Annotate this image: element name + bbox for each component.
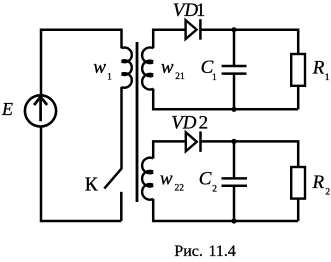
svg-text:1: 1 xyxy=(212,73,217,83)
wire: R2 bottom lead xyxy=(297,199,300,221)
wire: primary bottom wire and E bottom lead xyxy=(41,126,121,221)
transformer secondary winding w22 xyxy=(142,158,153,200)
wire: C1 bottom lead xyxy=(233,74,236,110)
transformer core xyxy=(136,42,139,202)
wire: switch bottom contact lead xyxy=(120,192,123,221)
resistor R1 xyxy=(291,54,305,86)
svg-text:2: 2 xyxy=(325,187,330,197)
transformer primary winding w1 xyxy=(122,48,132,88)
diode VD2 triangle xyxy=(186,132,197,151)
voltage source E arrow xyxy=(34,97,47,122)
node: junction dot VD2/C2 top xyxy=(231,139,236,144)
wire: C2 top lead xyxy=(233,141,236,178)
wire: w21 top lead and top wire to VD1 anode xyxy=(153,30,185,49)
wire: top loop bottom wire and w21 bottom lead xyxy=(153,89,298,110)
wire: bottom loop bottom wire and w22 bottom lead xyxy=(153,199,298,221)
svg-text:C: C xyxy=(199,169,212,190)
svg-text:w: w xyxy=(161,57,174,78)
svg-text:E: E xyxy=(1,99,13,119)
node: junction dot C1 bottom xyxy=(231,107,236,112)
svg-text:К: К xyxy=(85,174,99,195)
svg-text:1: 1 xyxy=(107,73,112,83)
svg-text:21: 21 xyxy=(175,72,185,82)
wire: w22 top lead and bottom loop top wire to VD2 anode xyxy=(153,141,186,158)
svg-text:1: 1 xyxy=(325,73,330,83)
wire: R1 bottom lead xyxy=(297,86,300,110)
svg-text:11.4: 11.4 xyxy=(209,243,236,260)
wire: VD2 cathode to corner down to R2 xyxy=(201,141,299,167)
svg-text:w: w xyxy=(93,57,106,78)
svg-text:w: w xyxy=(160,169,173,190)
svg-text:VD: VD xyxy=(171,113,197,134)
diode VD1 cathode bar xyxy=(199,19,202,40)
svg-text:2: 2 xyxy=(212,185,217,195)
wire: C1 top lead xyxy=(233,30,236,66)
transformer secondary winding w21 xyxy=(142,47,153,89)
node: junction dot VD1/C1 top xyxy=(231,27,236,32)
svg-text:Рис.: Рис. xyxy=(174,243,203,260)
node: junction dot C2 bottom xyxy=(231,218,236,223)
wire: VD1 cathode to top-right corner down to R1 xyxy=(200,30,298,55)
svg-text:2: 2 xyxy=(199,113,209,134)
svg-text:R: R xyxy=(312,172,325,193)
svg-text:22: 22 xyxy=(175,184,185,194)
capacitor C1 plates xyxy=(222,66,247,74)
diode VD1 triangle xyxy=(186,20,197,39)
capacitor C2 plates xyxy=(222,178,248,185)
wire: C2 bottom lead xyxy=(233,186,236,221)
wire: w1 bottom to switch top contact xyxy=(120,87,123,169)
voltage source E circle xyxy=(25,95,56,126)
diode VD2 cathode bar xyxy=(199,131,202,152)
svg-text:R: R xyxy=(312,58,325,79)
wire: E top lead, primary top wire, w1 top lead xyxy=(41,30,122,96)
resistor R2 xyxy=(291,167,305,199)
svg-text:VD: VD xyxy=(173,0,199,21)
switch K blade xyxy=(104,169,121,189)
svg-text:1: 1 xyxy=(196,0,206,21)
